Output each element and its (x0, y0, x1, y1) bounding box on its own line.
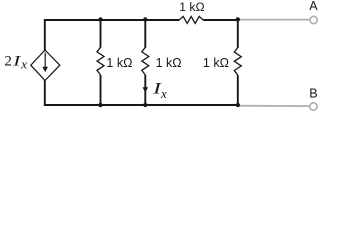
wire: gray stub to terminal B (238, 105, 310, 107)
node: R2 top junction (143, 17, 147, 21)
terminal B (open circle) (310, 103, 317, 110)
wire: branch R3 lower (237, 75, 239, 106)
node: R3 top junction (236, 17, 240, 21)
terminal A (open circle) (310, 16, 317, 23)
node: R1 top junction (98, 17, 102, 21)
resistor 1 kΩ (horizontal, top) (179, 16, 203, 23)
resistor R2 1 kΩ (vertical) (142, 47, 149, 75)
node: R2 bottom junction (143, 103, 147, 107)
wire: branch R2 upper (144, 19, 146, 47)
svg-text:1 kΩ: 1 kΩ (179, 0, 204, 14)
wire: branch R3 upper (237, 19, 239, 48)
svg-text:1 kΩ: 1 kΩ (106, 56, 132, 70)
svg-text:x: x (160, 86, 167, 101)
node: R1 bottom junction (98, 103, 102, 107)
svg-text:A: A (309, 0, 318, 13)
wire: branch R1 lower (100, 75, 102, 106)
resistor R3 1 kΩ (vertical) (234, 48, 241, 76)
svg-text:1 kΩ: 1 kΩ (156, 56, 182, 70)
svg-text:B: B (309, 86, 317, 100)
wire: bottom rail (44, 104, 238, 106)
wire: left rail lower (44, 80, 46, 106)
wire: branch R2 lower with Ix (144, 75, 146, 106)
resistor R1 1 kΩ (vertical) (97, 47, 104, 75)
node: R3 bottom junction (236, 103, 240, 107)
current arrow Ix (downward on wire) (143, 87, 149, 92)
wire: branch R1 upper (100, 19, 102, 47)
wire: left rail upper (44, 19, 46, 51)
wire: top rail right segment (203, 19, 238, 21)
wire: top rail left segment (44, 19, 179, 21)
wire: gray stub to terminal A (238, 19, 310, 21)
svg-text:1 kΩ: 1 kΩ (203, 56, 229, 70)
arrow inside source (downward) (44, 53, 46, 69)
dependent current source 2Ix (diamond) (31, 50, 60, 81)
svg-text:x: x (20, 56, 27, 71)
svg-text:2: 2 (4, 53, 11, 69)
